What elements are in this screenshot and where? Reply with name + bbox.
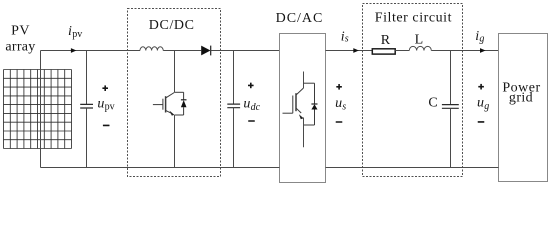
transistor Q1 (IGBT in DC/DC) xyxy=(153,92,184,115)
label + (u_g) xyxy=(478,84,484,90)
diode D3 (anti-parallel, Q2) xyxy=(311,83,317,125)
label - (u_dc) xyxy=(248,120,255,122)
diode D2 (anti-parallel, Q1) xyxy=(181,92,187,115)
label i_s xyxy=(341,29,349,44)
wire: inductor to diode xyxy=(163,50,201,52)
svg-text:grid: grid xyxy=(509,91,533,106)
Power grid box xyxy=(499,34,548,182)
capacitor C2 upper lead (u_dc) xyxy=(233,51,235,105)
capacitor C2 plates xyxy=(227,104,240,108)
label u_dc xyxy=(243,97,260,113)
current arrow i_g xyxy=(480,48,486,53)
capacitor C upper lead (filter) xyxy=(450,51,452,105)
DC/DC converter dashed box xyxy=(128,9,221,177)
svg-text:g: g xyxy=(479,34,484,45)
svg-text:DC/DC: DC/DC xyxy=(149,18,195,33)
wire: bottom bus right segment xyxy=(326,167,499,169)
resistor R xyxy=(372,49,395,54)
svg-text:DC/AC: DC/AC xyxy=(276,11,324,26)
svg-text:C: C xyxy=(428,95,437,110)
capacitor C1 lower lead xyxy=(86,108,88,168)
svg-text:pv: pv xyxy=(105,102,115,113)
svg-text:s: s xyxy=(342,102,346,113)
svg-text:PV: PV xyxy=(11,24,30,39)
svg-text:u: u xyxy=(477,96,484,111)
svg-text:u: u xyxy=(335,96,342,111)
wire: DC/AC output to filter xyxy=(326,50,373,52)
svg-text:L: L xyxy=(415,33,424,48)
wire: bottom bus left segment xyxy=(41,167,280,169)
label + (u_dc) xyxy=(248,83,254,89)
svg-text:u: u xyxy=(97,96,104,111)
svg-text:g: g xyxy=(484,101,489,112)
wire: IGBT Q1 emitter drop to bottom bus xyxy=(174,115,176,168)
wire: Q2 emitter lead xyxy=(303,118,305,148)
transistor Q2 (IGBT in DC/AC) collector lead xyxy=(303,72,305,89)
transistor Q2 body xyxy=(283,83,315,125)
capacitor C2 lower lead xyxy=(233,108,235,168)
label - (u_s) xyxy=(336,121,343,123)
wire: L to power grid box xyxy=(431,50,498,52)
wire: diode to DC/AC box xyxy=(211,50,280,52)
svg-text:dc: dc xyxy=(251,102,261,113)
svg-text:s: s xyxy=(345,34,349,45)
label + (u_s) xyxy=(336,84,342,90)
svg-text:R: R xyxy=(381,33,391,48)
label u_s xyxy=(335,96,346,112)
label i_g xyxy=(475,29,484,45)
Filter circuit dashed box xyxy=(363,4,463,177)
svg-text:u: u xyxy=(243,97,250,112)
svg-text:pv: pv xyxy=(72,29,82,40)
wire: PV array left vertical (top corner to bottom wire) xyxy=(40,51,42,168)
inductor L1 (boost inductor) xyxy=(140,47,163,51)
wire: R to L xyxy=(395,50,409,52)
diode D1 (boost diode) xyxy=(201,46,211,56)
label - (u_pv) xyxy=(103,125,110,127)
PV array panel grid xyxy=(4,70,72,149)
svg-text:Filter circuit: Filter circuit xyxy=(375,10,452,25)
inductor L (filter) xyxy=(409,46,431,50)
label i_pv xyxy=(68,24,82,40)
capacitor C plates xyxy=(442,105,459,109)
PV array label xyxy=(5,24,35,55)
label - (u_g) xyxy=(478,121,485,123)
capacitor C1 plates xyxy=(80,104,93,108)
capacitor C lower lead xyxy=(450,108,452,167)
label + (u_pv) xyxy=(102,85,108,91)
label Power grid xyxy=(502,81,540,106)
current arrow i_s xyxy=(353,48,359,53)
wire: IGBT Q1 collector drop xyxy=(174,51,176,93)
label u_g xyxy=(477,96,489,112)
current arrow i_pv xyxy=(71,48,77,53)
svg-text:array: array xyxy=(5,40,35,55)
DC/AC inverter box xyxy=(280,34,326,183)
capacitor C1 upper lead (u_pv) xyxy=(86,51,88,105)
label u_pv xyxy=(97,96,114,112)
wire: top bus left segment (corner to inductor) xyxy=(41,50,141,52)
